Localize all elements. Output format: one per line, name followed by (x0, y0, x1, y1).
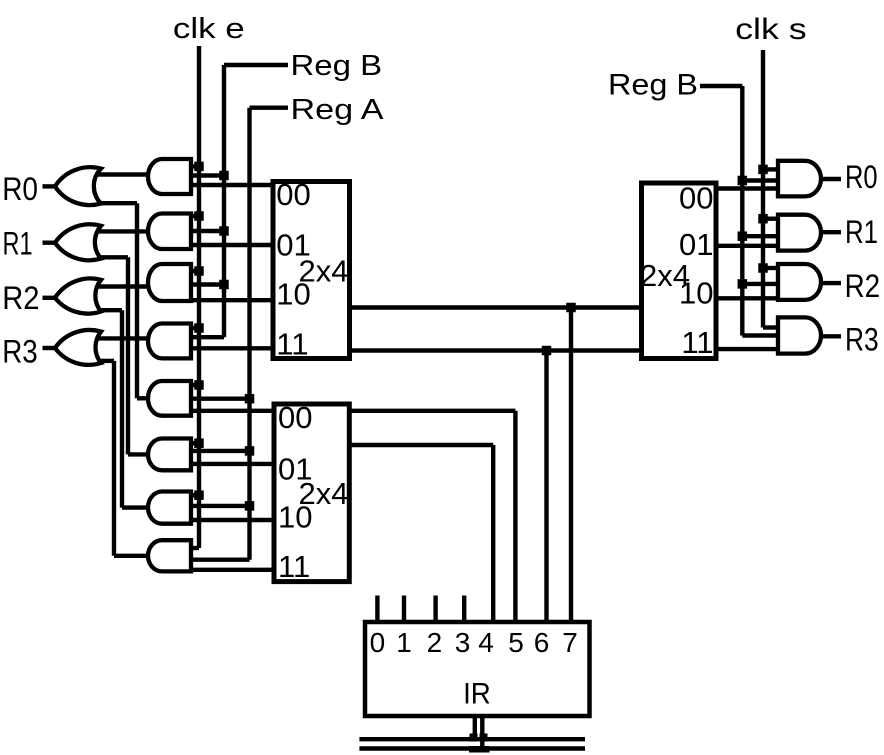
svg-text:10: 10 (679, 276, 713, 311)
svg-text:00: 00 (679, 181, 713, 216)
svg-text:11: 11 (276, 326, 308, 361)
svg-text:1: 1 (396, 627, 412, 658)
svg-text:11: 11 (681, 325, 713, 360)
svg-text:01: 01 (679, 227, 713, 262)
svg-text:R2: R2 (2, 280, 39, 316)
svg-text:11: 11 (278, 549, 310, 584)
svg-text:Reg A: Reg A (291, 94, 385, 126)
svg-text:10: 10 (278, 500, 312, 535)
svg-text:Reg B: Reg B (291, 50, 383, 82)
svg-text:R1: R1 (845, 214, 878, 250)
svg-text:R0: R0 (2, 171, 38, 207)
svg-text:2: 2 (427, 627, 443, 658)
svg-text:6: 6 (534, 627, 550, 658)
svg-text:R0: R0 (845, 159, 878, 195)
svg-text:R3: R3 (2, 334, 38, 370)
svg-text:IR: IR (463, 678, 491, 711)
svg-text:0: 0 (370, 627, 386, 658)
svg-text:00: 00 (276, 177, 310, 212)
svg-text:R1: R1 (3, 225, 33, 261)
svg-text:3: 3 (455, 627, 471, 658)
svg-text:clk s: clk s (735, 13, 807, 46)
svg-text:00: 00 (278, 400, 312, 435)
svg-text:5: 5 (508, 627, 524, 658)
svg-text:7: 7 (562, 627, 578, 658)
svg-text:clk e: clk e (173, 13, 245, 45)
svg-text:4: 4 (478, 627, 494, 658)
svg-text:R2: R2 (845, 268, 881, 304)
svg-text:R3: R3 (845, 322, 879, 358)
svg-text:Reg B: Reg B (608, 69, 698, 102)
svg-text:10: 10 (276, 277, 310, 312)
